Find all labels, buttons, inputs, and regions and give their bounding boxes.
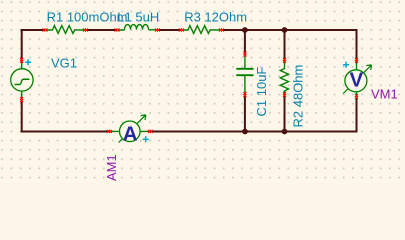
wire C1 top drop: [244, 30, 246, 53]
VM1 pin bottom: [355, 94, 358, 99]
AM1 pin right: [148, 130, 153, 133]
resistor R1: [47, 26, 85, 34]
wire bottom right horizontal: [150, 131, 357, 133]
svg-text:L1 5uH: L1 5uH: [117, 10, 159, 25]
wire R2 top drop: [284, 30, 286, 59]
wire L1 to R3: [157, 29, 181, 31]
VM1 plus: [343, 62, 349, 68]
capacitor C1: [236, 56, 253, 94]
wire right vertical lower: [356, 98, 358, 133]
wire C1 bottom drop: [244, 96, 246, 132]
resistor R3: [183, 26, 220, 34]
R2 pin top: [283, 58, 286, 63]
AM1 plus: [143, 136, 149, 142]
AM1 pin left: [107, 130, 112, 133]
L1 pin left: [115, 29, 120, 32]
C1 pin bottom: [243, 92, 246, 97]
VG1 pin bottom: [20, 97, 23, 102]
svg-text:R1 100mOhm: R1 100mOhm: [47, 10, 128, 25]
resistor R2: [280, 62, 288, 93]
wire R1 to L1: [86, 29, 118, 31]
voltmeter VM1: [343, 62, 371, 96]
svg-text:VG1: VG1: [51, 55, 77, 70]
wire R3 to top-right corner: [222, 29, 358, 31]
svg-text:V: V: [350, 69, 364, 92]
junction bottom R2: [282, 129, 288, 135]
L1 pin right: [155, 29, 160, 32]
R3 pin right: [219, 29, 224, 32]
VG1 plus: [25, 59, 31, 65]
R1 pin right: [83, 29, 88, 32]
svg-text:A: A: [123, 123, 138, 146]
wire right vertical upper: [356, 29, 358, 59]
VM1 pin top: [355, 58, 358, 63]
C1 pin top: [243, 52, 246, 57]
ammeter AM1: [111, 115, 150, 143]
wire left vertical upper: [21, 29, 23, 59]
junction top R2: [282, 27, 288, 33]
inductor L1: [119, 25, 157, 30]
R1 pin left: [43, 29, 48, 32]
wire top-left horizontal: [21, 29, 45, 31]
VG1 pin top: [20, 58, 23, 63]
R3 pin left: [179, 29, 184, 32]
junction bottom C1: [242, 129, 248, 135]
svg-text:R3 12Ohm: R3 12Ohm: [184, 10, 247, 25]
wire left vertical lower: [21, 101, 23, 133]
junction top C1: [242, 27, 248, 33]
svg-text:AM1: AM1: [104, 154, 119, 181]
voltage source VG1: [11, 62, 33, 99]
svg-text:R2 48Ohm: R2 48Ohm: [291, 65, 306, 128]
R2 pin bottom: [283, 92, 286, 97]
wire bottom left horizontal: [21, 131, 110, 133]
svg-text:VM1: VM1: [371, 87, 398, 102]
wire R2 bottom drop: [284, 96, 286, 132]
svg-text:C1 10uF: C1 10uF: [254, 67, 269, 117]
